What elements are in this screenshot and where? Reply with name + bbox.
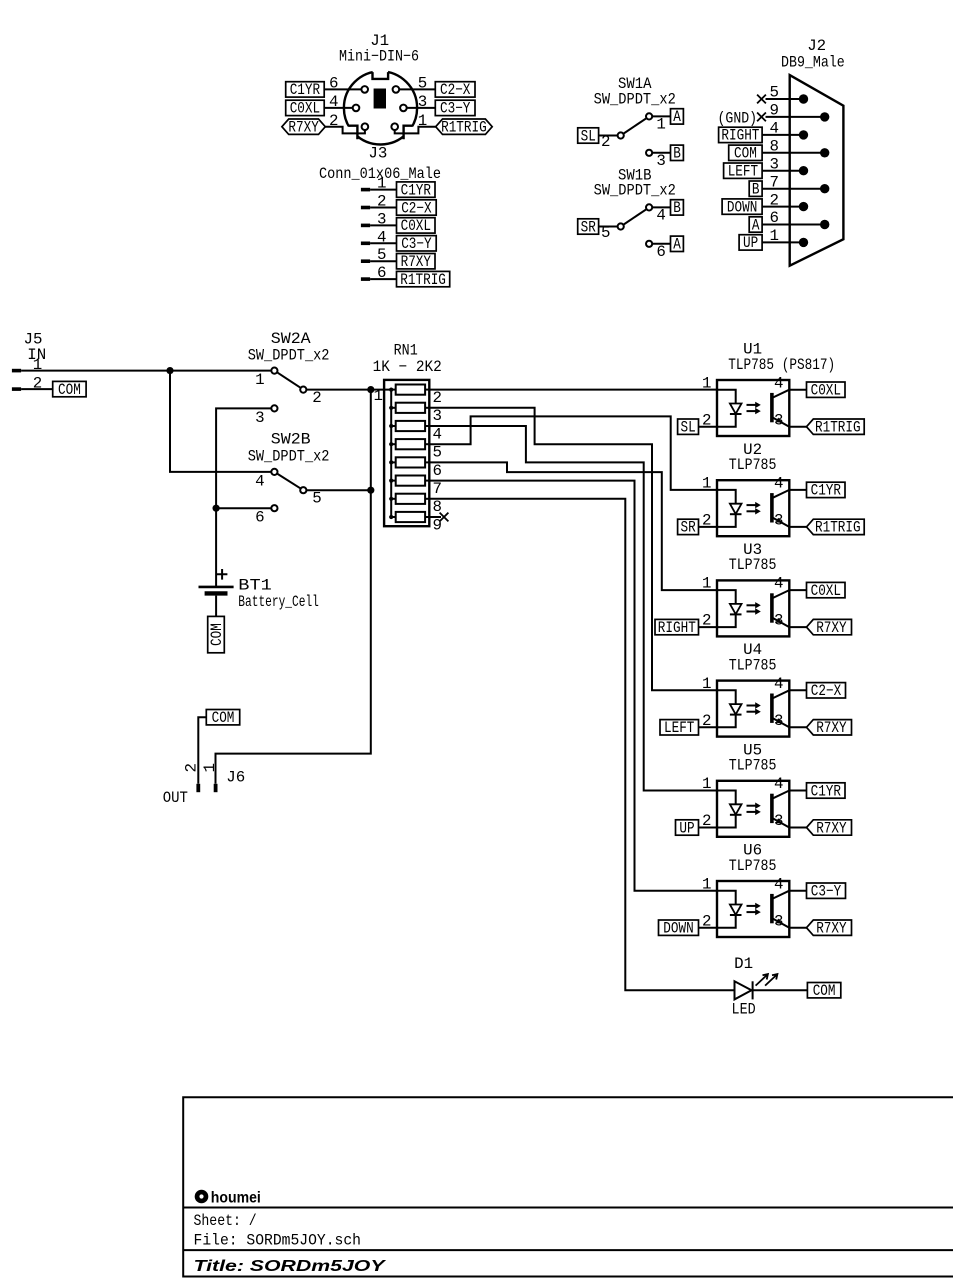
global label C1YR (J3 pin 1): [397, 181, 436, 199]
U4 pin 4 wire: [774, 675, 806, 693]
svg-text:SL: SL: [681, 419, 696, 437]
svg-text:A: A: [752, 216, 760, 234]
svg-text:RIGHT: RIGHT: [658, 619, 696, 637]
RN1 resistor element 6: [389, 476, 442, 499]
global label C0XL (U1 pin 4): [807, 382, 846, 400]
svg-text:C1YR: C1YR: [811, 782, 842, 800]
wire RN1 pin4 to U5 pin1: [429, 426, 717, 791]
svg-text:SL: SL: [581, 127, 596, 145]
wire J6 pin2 to COM: [198, 717, 206, 784]
global label A (SW1B pin 6): [671, 236, 684, 254]
U3 pin 2 wire: [699, 612, 718, 630]
svg-text:Title: SORDm5JOY: Title: SORDm5JOY: [194, 1258, 387, 1275]
RN1 resistor element 1: [389, 385, 442, 408]
svg-text:C0XL: C0XL: [290, 100, 320, 118]
J1 pin 2 wire: [325, 112, 365, 133]
svg-text:5: 5: [770, 84, 779, 102]
wire RN1 pin3 to U4 pin1: [429, 408, 717, 691]
svg-text:4: 4: [774, 875, 783, 893]
svg-text:4: 4: [774, 575, 783, 593]
global label C3−Y (J3 pin 4): [397, 235, 437, 253]
connector J3 Conn_01x06_Male: [319, 145, 441, 183]
optocoupler U5 TLP785: [717, 741, 789, 836]
svg-text:4: 4: [774, 475, 783, 493]
svg-text:3: 3: [774, 812, 783, 830]
SW1A pin 2 wire: [599, 133, 618, 151]
J1 pin 3 wire: [407, 93, 436, 111]
U5 pin 4 wire: [774, 775, 806, 793]
global label DOWN (J2 pin 2): [722, 198, 762, 216]
svg-text:R7XY: R7XY: [816, 719, 847, 737]
global label COM (J2 pin 8): [729, 145, 762, 163]
SW1A pin 1 wire: [652, 116, 670, 134]
wire SW2A pin2 to RN1 pin1: [306, 389, 391, 391]
J3 pin 1: [361, 175, 397, 193]
svg-text:R7XY: R7XY: [816, 819, 847, 837]
svg-text:3: 3: [774, 612, 783, 630]
svg-text:SR: SR: [581, 218, 597, 236]
svg-text:C0XL: C0XL: [401, 217, 431, 235]
J1 pin circles: [353, 86, 407, 130]
svg-text:2: 2: [702, 411, 711, 429]
wire J5 pin1 to SW2A pin1: [21, 370, 271, 372]
svg-text:2: 2: [377, 193, 386, 211]
svg-text:1K − 2K2: 1K − 2K2: [373, 358, 442, 376]
U6 pin 2 wire: [699, 912, 718, 930]
svg-text:2: 2: [702, 712, 711, 730]
svg-text:SR: SR: [681, 519, 697, 537]
U1 pin 1 number: [702, 374, 711, 392]
svg-text:J6: J6: [226, 769, 245, 787]
optocoupler U3 TLP785: [717, 541, 789, 636]
U1 pin 3 wire: [774, 411, 806, 429]
svg-text:5: 5: [433, 444, 442, 462]
svg-text:R7XY: R7XY: [816, 619, 847, 637]
global label UP (U5 pin 2): [676, 819, 699, 837]
svg-text:J3: J3: [368, 145, 387, 163]
svg-text:1: 1: [702, 675, 711, 693]
RN1 pin 9 no-connect: [429, 513, 448, 522]
global label COM (D1): [807, 982, 840, 1000]
global label R7XY (U3 pin 3): [807, 619, 852, 637]
svg-text:C2−X: C2−X: [401, 199, 432, 217]
svg-text:4: 4: [329, 93, 338, 111]
title block file: [194, 1231, 362, 1249]
RN1 resistor element 5: [389, 457, 442, 480]
switch SW2A SW_DPDT_x2: [248, 330, 330, 427]
global label C2−X (U4 pin 4): [807, 682, 846, 700]
U5 pin 2 wire: [699, 812, 718, 830]
global label C0XL (J3 pin 3): [397, 217, 436, 235]
SW1B pin 6 wire: [652, 243, 670, 261]
J3 pin 3: [361, 210, 397, 228]
svg-text:R1TRIG: R1TRIG: [441, 119, 487, 137]
J5 pin2 wire: [21, 388, 53, 390]
svg-text:R7XY: R7XY: [401, 253, 432, 271]
svg-text:DOWN: DOWN: [663, 920, 693, 938]
svg-text:SW_DPDT_x2: SW_DPDT_x2: [248, 347, 330, 365]
svg-text:Sheet: /: Sheet: /: [194, 1212, 257, 1230]
RN1 internal bus: [390, 390, 392, 517]
svg-text:File: SORDm5JOY.sch: File: SORDm5JOY.sch: [194, 1231, 362, 1249]
J3 pin 6: [361, 264, 397, 282]
svg-text:3: 3: [418, 93, 427, 111]
switch SW1B SW_DPDT_x2: [594, 166, 676, 247]
svg-text:1: 1: [702, 875, 711, 893]
svg-text:4: 4: [377, 228, 386, 246]
svg-text:6: 6: [656, 243, 665, 261]
svg-text:C1YR: C1YR: [290, 81, 321, 99]
connector J6 (OUT): [163, 763, 246, 807]
svg-text:1: 1: [201, 763, 219, 772]
svg-text:6: 6: [329, 75, 338, 93]
wire RN1 pin7 to U6 pin1: [429, 481, 717, 891]
connector J1 Mini-DIN-6: [339, 32, 419, 145]
global label R7XY (J3 pin 5): [397, 253, 436, 271]
battery BT1 Battery_Cell: [199, 569, 319, 616]
svg-text:SW_DPDT_x2: SW_DPDT_x2: [594, 181, 676, 199]
J1 pin 1 wire: [395, 112, 436, 133]
svg-text:(GND): (GND): [718, 110, 758, 128]
global label B (SW1A pin 3): [671, 145, 684, 163]
svg-text:A: A: [673, 236, 681, 254]
RN1 resistor element 3: [389, 421, 442, 444]
global label COM (BT1 minus, vertical): [208, 616, 226, 652]
svg-text:SW_DPDT_x2: SW_DPDT_x2: [594, 90, 676, 108]
svg-text:1: 1: [770, 227, 779, 245]
U4 pin 1 number: [702, 675, 711, 693]
svg-text:6: 6: [770, 209, 779, 227]
wire SW2B pin6 to battery column: [216, 507, 271, 509]
svg-text:R7XY: R7XY: [816, 920, 847, 938]
global label LEFT (U4 pin 2): [660, 719, 699, 737]
svg-text:2: 2: [702, 912, 711, 930]
global label C2−X (J3 pin 2): [397, 199, 437, 217]
global label LEFT (J2 pin 3): [724, 163, 763, 181]
svg-text:2: 2: [702, 612, 711, 630]
svg-text:C0XL: C0XL: [811, 382, 841, 400]
global label B (J2 pin 7): [749, 181, 762, 199]
wire RN1 pin2 to U1 pin1: [429, 389, 717, 391]
svg-text:4: 4: [770, 120, 779, 138]
svg-text:1: 1: [702, 775, 711, 793]
svg-text:R1TRIG: R1TRIG: [815, 519, 861, 537]
title block logo houmei: [195, 1190, 261, 1207]
svg-text:9: 9: [433, 516, 442, 534]
svg-text:6: 6: [255, 509, 264, 527]
svg-text:3: 3: [774, 712, 783, 730]
U2 pin 3 wire: [774, 512, 806, 530]
global label COM (J6 pin 2): [206, 709, 239, 727]
global label SR (SW1B pin 5): [578, 218, 599, 236]
U1 pin 2 wire: [699, 411, 718, 429]
J1 pin 6 wire: [324, 75, 361, 93]
svg-text:UP: UP: [679, 819, 694, 837]
global label R1TRIG (U2 pin 3): [807, 519, 865, 537]
svg-text:RN1: RN1: [394, 342, 418, 360]
svg-text:J2: J2: [807, 37, 826, 55]
svg-text:3: 3: [770, 155, 779, 173]
global label A (J2 pin 6): [749, 216, 762, 234]
svg-text:B: B: [673, 145, 681, 163]
RN1 resistor element 7: [389, 494, 442, 517]
svg-text:COM: COM: [212, 709, 235, 727]
svg-text:UP: UP: [743, 234, 758, 252]
svg-text:COM: COM: [734, 145, 757, 163]
svg-text:5: 5: [418, 75, 427, 93]
switch SW1A SW_DPDT_x2: [594, 75, 676, 156]
optocoupler U2 TLP785: [717, 441, 789, 536]
U2 pin 1 number: [702, 475, 711, 493]
svg-text:COM: COM: [208, 623, 226, 646]
svg-text:C2−X: C2−X: [440, 81, 471, 99]
global label A (SW1A pin 1): [671, 108, 684, 126]
global label R7XY (U4 pin 3): [807, 719, 852, 737]
global label C2-X (J1 pin 5): [435, 81, 475, 99]
global label RIGHT (J2 pin 4): [719, 127, 763, 145]
svg-text:DB9_Male: DB9_Male: [781, 54, 845, 72]
J2 pin 8: [762, 138, 829, 158]
U4 pin 2 wire: [699, 712, 718, 730]
U5 pin 3 wire: [774, 812, 806, 830]
svg-text:2: 2: [329, 112, 338, 130]
svg-text:4: 4: [656, 207, 665, 225]
svg-text:C3−Y: C3−Y: [811, 883, 842, 901]
svg-text:SW2A: SW2A: [271, 330, 311, 348]
J3 pin 4: [361, 228, 397, 246]
global label R1TRIG (J3 pin 6): [397, 271, 450, 289]
J2 pin 2: [762, 191, 808, 211]
junction RN1 pin1: [367, 386, 374, 393]
svg-text:5: 5: [601, 224, 610, 242]
global label B (SW1B pin 4): [671, 199, 684, 217]
U6 pin 4 wire: [774, 875, 806, 893]
global label R7XY (U5 pin 3): [807, 819, 852, 837]
svg-text:B: B: [673, 199, 681, 217]
svg-text:TLP785: TLP785: [729, 656, 777, 674]
global label COM (J5 pin 2): [53, 381, 86, 399]
svg-text:3: 3: [774, 411, 783, 429]
svg-text:7: 7: [433, 480, 442, 498]
svg-text:5: 5: [312, 489, 321, 507]
wire RN1 pin5 to U2 pin1: [429, 416, 717, 490]
svg-text:9: 9: [770, 102, 779, 120]
J3 pin 2: [361, 193, 397, 211]
svg-text:4: 4: [774, 675, 783, 693]
global label R7XY (U6 pin 3): [807, 920, 852, 938]
svg-text:C3−Y: C3−Y: [440, 100, 471, 118]
global label RIGHT (U3 pin 2): [655, 619, 699, 637]
U2 pin 2 wire: [699, 512, 718, 530]
wire junction down to SW2B pin 4: [170, 371, 271, 472]
wire D1 cathode to COM: [752, 989, 807, 991]
svg-text:2: 2: [312, 389, 321, 407]
U5 pin 1 number: [702, 775, 711, 793]
svg-text:TLP785: TLP785: [729, 456, 777, 474]
svg-text:TLP785: TLP785: [729, 556, 777, 574]
optocoupler U6 TLP785: [717, 842, 789, 937]
U2 pin 4 wire: [774, 475, 806, 493]
global label R7XY (J1 pin 2): [282, 119, 325, 137]
svg-text:R1TRIG: R1TRIG: [815, 419, 861, 437]
global label SR (U2 pin 2): [678, 519, 699, 537]
svg-text:1: 1: [374, 387, 383, 405]
svg-text:4: 4: [433, 425, 442, 443]
SW1A pin 3 wire: [652, 152, 670, 170]
global label UP (J2 pin 1): [739, 234, 762, 252]
svg-text:TLP785: TLP785: [729, 757, 777, 775]
svg-text:2: 2: [770, 191, 779, 209]
svg-text:LED: LED: [732, 1000, 756, 1018]
svg-text:LEFT: LEFT: [728, 163, 758, 181]
connector J2 DB9_Male: [781, 37, 845, 266]
U4 pin 3 wire: [774, 712, 806, 730]
U6 pin 1 number: [702, 875, 711, 893]
svg-text:C0XL: C0XL: [811, 582, 841, 600]
wire SW2A pin3 to left column: [216, 408, 271, 586]
global label C3−Y (U6 pin 4): [807, 883, 846, 901]
svg-text:LEFT: LEFT: [664, 719, 694, 737]
global label C0XL (J1 pin 4): [286, 100, 325, 118]
svg-text:houmei: houmei: [211, 1190, 261, 1207]
svg-text:C2−X: C2−X: [811, 682, 842, 700]
svg-text:C1YR: C1YR: [811, 482, 842, 500]
title block sheet: [194, 1212, 257, 1230]
junction at J5/SW2B branch: [166, 367, 173, 374]
RN1 resistor element 4: [389, 439, 442, 462]
junction SW2B pin5 / vertical: [367, 487, 374, 494]
global label C1YR (J1 pin 6): [286, 81, 325, 99]
svg-text:3: 3: [255, 409, 264, 427]
resistor network RN1 1K-2K2: [373, 342, 442, 527]
global label SL (SW1A pin 2): [578, 127, 599, 145]
title block title: [194, 1258, 387, 1275]
U6 pin 3 wire: [774, 912, 806, 930]
global label R1TRIG (U1 pin 3): [807, 419, 865, 437]
switch SW2B SW_DPDT_x2: [248, 431, 330, 527]
global label C1YR (U2 pin 4): [807, 482, 846, 500]
main vertical wire RN1 pin1 to J6: [216, 390, 371, 784]
U3 pin 4 wire: [774, 575, 806, 593]
svg-text:DOWN: DOWN: [727, 198, 757, 216]
net name (GND) at J2 pin 9: [718, 110, 758, 128]
svg-text:B: B: [752, 181, 760, 199]
U3 pin 3 wire: [774, 612, 806, 630]
LED D1: [732, 955, 778, 1018]
J2 pin 7: [762, 173, 829, 193]
svg-text:4: 4: [255, 472, 264, 490]
svg-text:SW2B: SW2B: [271, 431, 311, 449]
svg-text:3: 3: [774, 512, 783, 530]
svg-text:C1YR: C1YR: [401, 181, 432, 199]
svg-text:OUT: OUT: [163, 789, 188, 807]
global label C0XL (U3 pin 4): [807, 582, 846, 600]
SW1B pin 5 wire: [599, 224, 618, 242]
SW1B pin 4 wire: [652, 207, 670, 225]
svg-text:8: 8: [770, 138, 779, 156]
svg-text:3: 3: [433, 407, 442, 425]
U3 pin 1 number: [702, 575, 711, 593]
svg-text:C3−Y: C3−Y: [401, 235, 432, 253]
global label C3-Y (J1 pin 3): [435, 100, 475, 118]
svg-text:SW_DPDT_x2: SW_DPDT_x2: [248, 447, 330, 465]
svg-text:Mini−DIN−6: Mini−DIN−6: [339, 48, 419, 66]
J1 pin 5 wire: [399, 75, 435, 93]
J2 pin 5: [757, 84, 808, 104]
svg-text:7: 7: [770, 173, 779, 191]
RN1 resistor element 8: [389, 512, 442, 535]
J2 pin 6: [762, 209, 829, 229]
svg-text:1: 1: [702, 575, 711, 593]
J1 pin 4 wire: [324, 93, 353, 111]
title block frame: [183, 1097, 953, 1276]
U1 pin 4 wire: [774, 374, 806, 392]
svg-text:R7XY: R7XY: [288, 119, 319, 137]
wire RN1 pin8 to D1: [429, 499, 735, 990]
svg-text:1: 1: [656, 116, 665, 134]
svg-text:3: 3: [377, 210, 386, 228]
svg-text:COM: COM: [813, 982, 836, 1000]
optocoupler U4 TLP785: [717, 641, 789, 736]
J2 pin 1: [762, 227, 808, 247]
svg-text:1: 1: [255, 371, 264, 389]
J2 pin 9: [757, 102, 829, 122]
svg-text:1: 1: [702, 475, 711, 493]
svg-text:D1: D1: [734, 955, 753, 973]
global label C1YR (U5 pin 4): [807, 782, 846, 800]
connector J5 (IN): [12, 331, 46, 393]
svg-text:1: 1: [377, 175, 386, 193]
svg-text:A: A: [673, 108, 681, 126]
svg-text:2: 2: [601, 133, 610, 151]
svg-text:4: 4: [774, 374, 783, 392]
global label R1TRIG (J1 pin 1): [436, 119, 493, 137]
svg-text:BT1: BT1: [238, 576, 271, 594]
svg-text:5: 5: [377, 246, 386, 264]
svg-text:6: 6: [433, 462, 442, 480]
svg-text:TLP785: TLP785: [729, 857, 777, 875]
global label DOWN (U6 pin 2): [659, 920, 699, 938]
svg-text:2: 2: [702, 812, 711, 830]
svg-text:6: 6: [377, 264, 386, 282]
svg-text:Battery_Cell: Battery_Cell: [238, 593, 319, 611]
svg-text:1: 1: [702, 374, 711, 392]
svg-text:3: 3: [656, 152, 665, 170]
svg-text:2: 2: [702, 512, 711, 530]
svg-text:3: 3: [774, 912, 783, 930]
J2 pin 3: [762, 155, 808, 175]
J2 pin 4: [762, 120, 808, 140]
svg-text:TLP785 (PS817): TLP785 (PS817): [728, 356, 835, 374]
svg-text:1: 1: [418, 112, 427, 130]
svg-text:COM: COM: [58, 381, 81, 399]
optocoupler U1 TLP785 (PS817): [717, 341, 835, 436]
svg-text:2: 2: [433, 389, 442, 407]
J3 pin 5: [361, 246, 397, 264]
RN1 resistor element 2: [389, 403, 442, 426]
global label SL (U1 pin 2): [678, 419, 699, 437]
wire SW2B pin5 to vertical bus: [306, 489, 371, 491]
svg-text:4: 4: [774, 775, 783, 793]
junction battery column: [213, 505, 220, 512]
wire RN1 pin6 to U3 pin1: [429, 462, 717, 590]
svg-text:RIGHT: RIGHT: [721, 127, 759, 145]
svg-text:R1TRIG: R1TRIG: [400, 271, 446, 289]
